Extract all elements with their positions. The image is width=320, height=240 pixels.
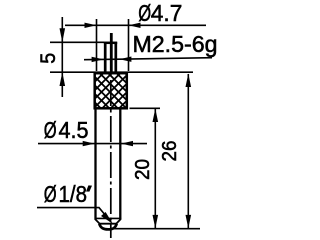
arrowhead at shaft left (83, 141, 95, 146)
arrowhead at shaft right (121, 141, 133, 146)
svg-text:Ø: Ø (44, 118, 57, 143)
arrowhead up to knurl top (60, 72, 66, 86)
svg-text:4.5: 4.5 (59, 117, 89, 143)
knurl (crosshatched grip) (56, 72, 164, 109)
svg-text:20: 20 (132, 159, 154, 180)
arrowhead at tip (101, 212, 113, 224)
centerline thick segment through stud (110, 33, 113, 72)
reference line stud top (50, 41, 104, 43)
reference line knurl top (50, 71, 193, 73)
arrowhead down to tip line (153, 215, 159, 229)
leader Ø4.5 (38, 143, 147, 145)
dimension line Ø4.7 (65, 24, 206, 26)
arrowhead right of Ø4.7 (129, 23, 141, 28)
extension line right (knurl Ø) (128, 19, 130, 71)
svg-text:1/8: 1/8 (59, 181, 88, 207)
tip (contact ball) (95, 218, 122, 229)
arrowhead up to knurl top (186, 74, 192, 88)
svg-text:Ø: Ø (138, 1, 151, 26)
shaft Ø4.5 (96, 108, 121, 220)
threaded stud M2.5 outline (104, 42, 117, 73)
inch mark (86, 185, 92, 191)
arrowhead at stud right (119, 57, 131, 62)
arrowhead at stud left (92, 57, 104, 62)
leader Ø1/8 inch (tip) (37, 208, 111, 222)
dimension 20 (shaft length) (154, 109, 156, 228)
arrowhead down to stud top (60, 28, 66, 42)
centerline (probe axis) (110, 44, 112, 238)
dimension 26 (total length) (187, 74, 189, 228)
reference line knurl bottom (130, 107, 161, 109)
arrowhead left of Ø4.7 (85, 23, 97, 28)
svg-text:Ø: Ø (44, 182, 57, 207)
svg-text:4.7: 4.7 (151, 0, 183, 26)
arrowhead down to tip line (186, 215, 192, 229)
svg-text:5: 5 (37, 53, 60, 64)
arrowhead up to shaft top (153, 109, 159, 123)
svg-text:26: 26 (159, 141, 181, 162)
baseline at tip (112, 228, 200, 230)
extension line left (knurl Ø) (96, 19, 98, 71)
svg-text:M2.5-6g: M2.5-6g (133, 31, 218, 57)
leader M2.5-6g (84, 58, 212, 60)
dimension 5 (stud length) (61, 17, 63, 97)
